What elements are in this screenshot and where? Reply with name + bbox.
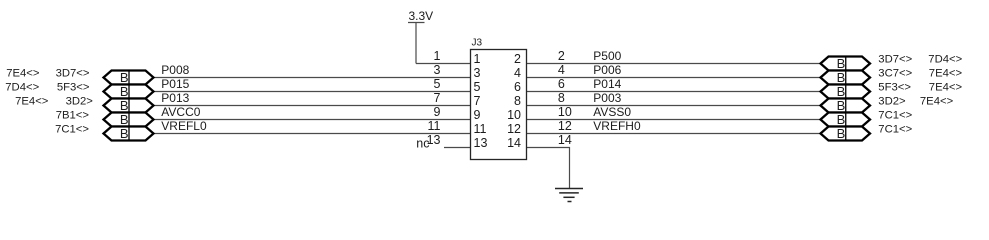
svg-text:8: 8 [514,94,521,108]
svg-text:12: 12 [558,119,572,133]
svg-text:VREFH0: VREFH0 [593,119,641,133]
svg-text:P006: P006 [593,63,621,77]
svg-text:7D4<>: 7D4<> [928,54,962,66]
svg-text:B: B [837,56,846,71]
wire pin11 net VREFL0 [154,133,472,135]
wire pin7 net P013 [154,105,472,107]
port BI right pin8 [821,98,871,113]
wire pin6 net P014 [527,91,821,93]
svg-text:12: 12 [507,122,521,136]
net labels left [161,63,207,133]
svg-text:3D7<>: 3D7<> [878,54,912,66]
sheet refs left [5,68,93,136]
svg-text:5F3<>: 5F3<> [57,82,90,94]
svg-text:1: 1 [474,52,481,66]
port BI right pin10 [821,112,871,127]
wire pin3 net P008 [154,77,472,79]
port BI left pin11 [104,126,154,141]
port BI right pin2 [821,56,871,71]
svg-text:P015: P015 [161,77,189,91]
wire pin5 net P015 [154,91,472,93]
wire pin13 nc stub [444,147,471,149]
svg-text:B: B [120,126,129,141]
svg-text:11: 11 [474,122,487,136]
svg-text:7: 7 [474,94,481,108]
svg-text:7C1<>: 7C1<> [878,110,912,122]
svg-text:7: 7 [434,91,441,105]
svg-text:7E4<>: 7E4<> [6,68,40,80]
power symbol 3.3V [408,9,433,64]
svg-text:5: 5 [474,80,481,94]
svg-text:5F3<>: 5F3<> [878,82,911,94]
svg-text:13: 13 [474,136,488,150]
svg-text:AVSS0: AVSS0 [593,105,631,119]
svg-text:6: 6 [558,77,565,91]
svg-text:AVCC0: AVCC0 [161,105,200,119]
svg-text:B: B [837,84,846,99]
wire pin2 net P500 [527,63,821,65]
svg-text:11: 11 [428,119,441,133]
svg-text:7E4<>: 7E4<> [920,96,954,108]
pin numbers inside left [474,52,488,150]
svg-text:10: 10 [507,108,521,122]
port BI right pin4 [821,70,871,85]
connector J3 body [471,50,527,160]
svg-text:3D2>: 3D2> [878,96,906,108]
svg-text:P003: P003 [593,91,621,105]
wire pin8 net P003 [527,105,821,107]
svg-text:7C1<>: 7C1<> [55,124,89,136]
port BI left pin9 [104,112,154,127]
svg-text:4: 4 [514,66,521,80]
svg-text:14: 14 [507,136,521,150]
svg-text:6: 6 [514,80,521,94]
port BI left pin3 [104,70,154,85]
svg-text:3D7<>: 3D7<> [56,68,90,80]
svg-text:B: B [837,126,846,141]
svg-text:10: 10 [558,105,572,119]
svg-text:P500: P500 [593,49,621,63]
wire pin12 net VREFH0 [527,133,821,135]
port BI right pin6 [821,84,871,99]
svg-text:14: 14 [558,133,572,147]
svg-text:3: 3 [434,63,441,77]
ground [555,189,583,202]
port BI left pin5 [104,84,154,99]
svg-text:B: B [120,84,129,99]
wire pin14 to ground [527,148,570,189]
svg-text:5: 5 [434,77,441,91]
svg-text:9: 9 [434,105,441,119]
svg-text:4: 4 [558,63,565,77]
svg-text:2: 2 [558,49,565,63]
svg-text:P013: P013 [161,91,189,105]
svg-text:7C1<>: 7C1<> [878,124,912,136]
svg-text:B: B [120,112,129,127]
svg-text:B: B [837,70,846,85]
svg-text:3: 3 [474,66,481,80]
net labels right [593,49,641,133]
svg-text:2: 2 [514,52,521,66]
port BI left pin7 [104,98,154,113]
svg-text:7D4<>: 7D4<> [5,82,39,94]
sheet refs right [878,54,962,136]
svg-text:P014: P014 [593,77,621,91]
wire pin9 net AVCC0 [154,119,472,121]
svg-text:B: B [120,70,129,85]
svg-text:B: B [837,112,846,127]
svg-text:7E4<>: 7E4<> [929,82,963,94]
svg-text:3.3V: 3.3V [409,9,434,23]
svg-text:3D2>: 3D2> [66,96,94,108]
pin numbers inside right [507,52,521,150]
svg-text:3C7<>: 3C7<> [878,68,912,80]
svg-text:P008: P008 [161,63,189,77]
svg-text:VREFL0: VREFL0 [161,119,207,133]
svg-text:8: 8 [558,91,565,105]
port BI right pin12 [821,126,871,141]
svg-text:7B1<>: 7B1<> [56,110,90,122]
svg-text:7E4<>: 7E4<> [929,68,963,80]
pin numbers outside left [427,49,441,147]
svg-text:B: B [120,98,129,113]
svg-text:9: 9 [474,108,481,122]
wire pin10 net AVSS0 [527,119,821,121]
svg-text:nc: nc [416,137,429,151]
svg-text:B: B [837,98,846,113]
svg-text:1: 1 [434,49,441,63]
svg-text:7E4<>: 7E4<> [15,96,49,108]
wire pin1 from 3.3V to J3 [416,63,471,65]
svg-text:J3: J3 [472,38,483,49]
pin numbers outside right [558,49,572,147]
wire pin4 net P006 [527,77,821,79]
